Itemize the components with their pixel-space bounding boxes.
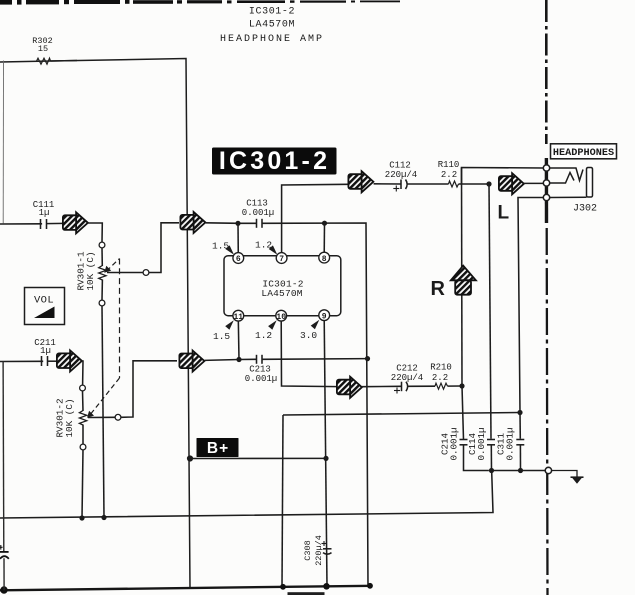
node: off-board ground circle: [545, 467, 551, 473]
wire: board boundary dash-dot vertical bottom: [546, 228, 549, 595]
wire: pin7 lead up and over to output arrow: [282, 184, 348, 253]
svg-text:3.0: 3.0: [300, 330, 317, 341]
label C311 0.001u: [496, 427, 516, 460]
svg-text:C212: C212: [396, 364, 418, 374]
node junction RV301-1 bottom: [101, 515, 106, 520]
svg-text:220µ/4: 220µ/4: [385, 170, 417, 180]
svg-text:1.5: 1.5: [213, 331, 230, 342]
capacitor C111: [41, 219, 47, 229]
capacitor C113: [257, 219, 263, 228]
wire: C111 to arrow: [47, 222, 64, 224]
svg-text:8: 8: [322, 255, 327, 264]
connector arrow (R channel, pointing up): [451, 266, 476, 295]
wire: boundary solid behind jack: [545, 158, 548, 223]
node junction pin6 wire: [235, 221, 240, 226]
label IC301-2 (inverted): [212, 147, 337, 175]
svg-text:2.2: 2.2: [432, 373, 448, 383]
svg-text:220µ/4: 220µ/4: [314, 535, 324, 566]
wire: pin11 lead: [237, 319, 240, 360]
svg-text:IC301-2: IC301-2: [249, 7, 295, 18]
node: wiper connector circle: [143, 270, 149, 276]
pin 6: [233, 253, 244, 265]
wire: C212 to R210: [408, 385, 435, 387]
label IC301-2 LA4570M inside: [261, 279, 303, 300]
svg-text:0.001µ: 0.001µ: [242, 208, 274, 218]
wire: C311 to ground wire: [519, 445, 521, 471]
svg-text:1µ: 1µ: [40, 346, 51, 356]
svg-text:7: 7: [279, 255, 284, 264]
voltage label 1.5 at pin 11: [213, 320, 234, 342]
jack J302 tip contact spring: [550, 168, 584, 181]
svg-text:LA4570M: LA4570M: [249, 20, 295, 31]
wire: C114 to ground wire: [490, 445, 492, 471]
wire: pin8 lead: [323, 223, 325, 255]
voltage label 1.2 at pin 10: [255, 320, 277, 341]
svg-text:C308: C308: [303, 540, 313, 560]
node junction B+ left: [187, 455, 193, 461]
wire: C113 to pin8 node then corner down: [262, 223, 368, 586]
capacitor C112 (electrolytic, + mark): [401, 180, 407, 190]
label B+ (inverted): [197, 438, 239, 457]
svg-text:LA4570M: LA4570M: [261, 288, 302, 299]
wire: arrow to C112: [374, 183, 401, 185]
node: RV301-1 bottom terminal: [99, 300, 105, 306]
capacitor C211 labels: [34, 338, 56, 356]
svg-text:2.2: 2.2: [441, 170, 457, 180]
wire: arrow to C212: [362, 385, 402, 387]
wire: wiper circle to corner up to IC pin11 line: [121, 361, 177, 418]
wire: RV301-2 wiper output: [88, 416, 115, 418]
wire: RV301-1 bottom down to ground bus: [102, 306, 104, 518]
capacitor C308 (electrolytic on pin9 line): [323, 549, 332, 554]
capacitor C311: [516, 440, 524, 445]
potentiometer RV301-1 element: [99, 266, 106, 281]
jack J302 sleeve contact: [550, 196, 587, 198]
node junction R output: [459, 383, 464, 388]
wire: pin9 lead down B+ and C308 line: [324, 319, 327, 586]
node: wiper connector circle: [115, 414, 121, 420]
node: jack contact 1: [543, 165, 549, 171]
wire: R110 node up and over to jack tip contact: [462, 168, 544, 185]
svg-text:C112: C112: [389, 161, 411, 171]
op-amp IC301-2 body: [224, 256, 341, 316]
connector arrow (pin10 R output): [337, 377, 362, 398]
label bar fragment at bottom edge: [288, 592, 325, 595]
wire: RV301-1 element upper: [101, 248, 103, 266]
wire: pin10 lead down and over to output arrow: [281, 319, 338, 387]
resistor R210: [435, 383, 448, 389]
capacitor C113 labels: [242, 199, 274, 219]
label RV301-2 10K (C): [55, 398, 76, 437]
wire: RV301-2 element upper: [82, 391, 85, 411]
connector arrow (L to jack): [499, 173, 524, 194]
svg-text:VOL: VOL: [34, 295, 54, 307]
svg-text:0.001µ: 0.001µ: [245, 374, 277, 384]
title text block: [220, 7, 324, 46]
wire: RV301-2 element lower: [82, 425, 84, 445]
wire: ground wire to off-board circle: [492, 470, 546, 472]
svg-text:J302: J302: [573, 204, 597, 215]
voltage label 3.0 at pin 9: [300, 320, 319, 341]
svg-text:10K (C): 10K (C): [64, 398, 75, 437]
wire: ground return horizontal (contact3 column to bottom-left rail): [283, 413, 520, 416]
wire: top board-boundary dash-dot bar: [0, 0, 400, 5]
wire: pin6 node to C113: [238, 222, 257, 224]
svg-text:220µ/4: 220µ/4: [391, 373, 423, 383]
node junction rail x282: [280, 584, 286, 590]
pin 9: [319, 310, 330, 322]
wire: R110 through crossing to L node: [459, 183, 490, 185]
pin 11: [233, 310, 244, 322]
svg-text:1µ: 1µ: [39, 208, 50, 218]
node junction B+ right (pin9 line): [323, 456, 328, 461]
svg-text:IC301-2: IC301-2: [219, 147, 330, 175]
wire: bottom ground rail: [0, 586, 372, 591]
resistor R302: [37, 58, 51, 64]
wire: C214 to ground wire corner: [464, 445, 489, 471]
svg-text:HEADPHONES: HEADPHONES: [553, 148, 614, 159]
jack J302 middle contact spring: [550, 173, 575, 184]
capacitor C212 (electrolytic, + mark): [402, 382, 408, 392]
node: jack contact 3: [543, 194, 549, 200]
wire: C112 to R110: [408, 183, 449, 185]
svg-text:0.001µ: 0.001µ: [476, 427, 487, 460]
svg-text:B+: B+: [207, 440, 229, 457]
connector arrow (C111 to volume): [63, 212, 88, 233]
label HEADPHONES box: [551, 144, 617, 159]
box VOL: [25, 288, 65, 325]
wire: jack sleeve to ground column: [518, 198, 543, 413]
resistor R110 labels: [438, 160, 460, 180]
wire: long ground bus from left edge up to ground wire: [0, 472, 493, 518]
wire: left input to C111: [0, 223, 42, 225]
pin 10: [276, 310, 287, 322]
capacitor (electrolytic, cut at left edge): [0, 552, 9, 559]
resistor R210 labels: [430, 363, 452, 384]
resistor R302 labels: [32, 36, 52, 54]
wire: contact3 column down to C311: [519, 413, 521, 439]
wire: R channel line down to R210 node: [461, 168, 464, 387]
wire: RV301-1 element lower: [101, 280, 103, 301]
voltage label 1.5 at pin 6: [212, 241, 234, 255]
label C114 0.001u: [467, 427, 487, 460]
capacitor C213: [257, 355, 263, 364]
svg-text:HEADPHONE AMP: HEADPHONE AMP: [220, 34, 324, 45]
node: jack contact 2: [543, 180, 549, 186]
voltage label 1.2 at pin 7: [255, 240, 277, 255]
node junction pin11: [236, 357, 241, 362]
wire: C213 to ground column node: [262, 358, 368, 361]
svg-text:10K (C): 10K (C): [85, 251, 96, 290]
node junction rail left end: [0, 586, 7, 593]
svg-text:L: L: [498, 203, 510, 224]
svg-text:11: 11: [233, 313, 243, 322]
wire: circle to chassis ground: [552, 471, 577, 478]
wire: arrow to pin6 node: [206, 222, 238, 225]
node junction L output: [486, 181, 491, 186]
node: RV301-2 top terminal: [80, 385, 86, 391]
connector arrow (pin7 L output): [348, 171, 373, 192]
node junction RV301-2 bottom: [79, 515, 84, 520]
svg-text:R: R: [431, 278, 446, 300]
svg-text:15: 15: [38, 44, 48, 54]
capacitor C111 labels: [33, 200, 55, 218]
label RV301-1 10K (C): [76, 251, 97, 290]
wire: faint left-edge vertical (R302 wire to C111 wire): [2, 61, 4, 224]
node junction rail ground column: [367, 583, 373, 589]
wire: left input to R302: [0, 61, 77, 63]
connector arrow (volume to IC pin 11): [179, 351, 204, 372]
wire: C211 to arrow: [48, 360, 57, 362]
capacitor C212 labels: [391, 364, 423, 384]
pin 7: [276, 253, 287, 265]
node junction C311 ground: [518, 468, 523, 473]
svg-text:0.001µ: 0.001µ: [449, 427, 460, 460]
wire: B+ rail: [190, 457, 326, 459]
ground symbol: [571, 477, 584, 484]
wire: pin6 lead: [237, 223, 239, 255]
svg-text:R110: R110: [438, 160, 460, 170]
gang link arrowhead at RV301-2: [87, 411, 94, 418]
capacitor C114: [487, 440, 495, 445]
wire: R node down to C214: [462, 386, 464, 440]
svg-text:9: 9: [322, 312, 327, 321]
wire: RV301-1 wiper output: [107, 272, 143, 274]
svg-text:1.2: 1.2: [255, 330, 272, 341]
node junction C213-ground column: [365, 356, 370, 361]
svg-text:C113: C113: [246, 199, 268, 209]
node junction rail C308: [323, 583, 330, 590]
connector arrow (C211 to volume): [57, 350, 82, 371]
wire: L node down to C114: [489, 184, 491, 439]
gang link arrowhead at RV301-1: [104, 266, 111, 273]
svg-text:0.001µ: 0.001µ: [505, 427, 516, 460]
node junction ground column top: [517, 410, 522, 415]
wire: left input to C211: [0, 360, 43, 362]
wire: pin11 node to C213: [239, 358, 257, 360]
wire: arrow to pin11 node: [205, 359, 239, 362]
capacitor C213 labels: [245, 365, 277, 385]
node: RV301-1 top terminal: [99, 242, 105, 248]
wire: R210 to R node: [448, 385, 463, 387]
wire: RV301-2 bottom to ground bus: [82, 450, 83, 518]
wire: R302 to corner and B+ vertical line: [51, 59, 191, 589]
svg-text:C213: C213: [249, 365, 271, 375]
svg-text:10: 10: [276, 313, 286, 322]
label C308 220u/4: [303, 535, 324, 566]
capacitor C214: [460, 440, 468, 445]
wire: left-edge vertical C211 wire down to rail: [3, 361, 4, 590]
wire: corner down to bottom rail: [282, 415, 283, 587]
capacitor C211: [42, 356, 48, 366]
wire: arrow tip down to RV301-2 top: [82, 361, 83, 385]
label C214 0.001u: [440, 427, 460, 460]
potentiometer RV301-2 element: [79, 411, 86, 426]
wire: arrow to RV301-1 top: [88, 223, 103, 242]
connector arrow (volume to IC pin 6): [180, 212, 205, 233]
capacitor C112 labels: [385, 161, 417, 181]
node junction C114 ground: [489, 468, 494, 473]
svg-text:R210: R210: [430, 363, 452, 373]
node: RV301-2 bottom terminal: [80, 444, 86, 450]
jack J302 plug body: [587, 168, 593, 198]
svg-text:6: 6: [236, 255, 241, 264]
node junction pin8 wire: [322, 221, 327, 226]
pin 8: [319, 252, 330, 264]
wire: board boundary dash-dot vertical top: [545, 0, 548, 144]
wire: wiper circle to corner up to IC pin6 line: [149, 223, 179, 273]
wire: ganged-control dashed link between wipers: [90, 259, 120, 416]
wire: arrow to jack middle contact: [524, 182, 543, 184]
resistor R110: [449, 181, 459, 187]
